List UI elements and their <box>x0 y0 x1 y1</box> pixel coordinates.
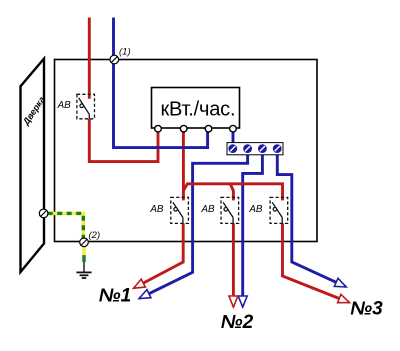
breaker AB1 <box>171 197 189 223</box>
svg-text:АВ: АВ <box>57 100 72 111</box>
door bolt <box>39 209 48 218</box>
svg-text:АВ: АВ <box>149 204 164 215</box>
wire: red bus to breakers 2,3 <box>183 184 282 201</box>
PE wire node 2 to ground <box>82 247 85 273</box>
svg-text:№3: №3 <box>350 298 383 319</box>
wire: red branch into breaker AB2 <box>230 184 233 201</box>
breaker AB3 <box>270 197 288 223</box>
svg-text:(2): (2) <box>89 230 101 241</box>
svg-text:(1): (1) <box>119 47 131 58</box>
wire: red phase incoming to main breaker <box>88 18 91 99</box>
node 2 (PE bolt) <box>80 238 89 247</box>
door panel <box>21 59 45 272</box>
breaker AB main (top-left) <box>77 94 95 119</box>
wire: red main breaker out to meter T1 <box>89 119 158 162</box>
kWh meter U1 <box>152 88 240 133</box>
wire: red AB1 out to arrow N1 <box>134 223 183 288</box>
wire: blue strip T4 to arrow N3 <box>277 153 345 287</box>
svg-text:АВ: АВ <box>248 204 263 215</box>
ground symbol <box>76 272 91 278</box>
wire: red meter T2 down into breaker AB1 <box>182 130 185 200</box>
PE wire door to node 2 (yellow-green) <box>48 213 84 238</box>
wire: red AB2 out to arrow N2 <box>232 223 235 306</box>
wire: red AB3 out to arrow N3 <box>283 223 350 302</box>
wire: blue meter T4 to strip T1 <box>232 130 235 144</box>
node 1 (phase entry bolt) <box>110 55 119 64</box>
svg-text:АВ: АВ <box>201 204 216 215</box>
wire: blue strip T2 to arrow N1 <box>140 153 248 298</box>
wire: blue strip T3 to arrow N2 <box>243 153 263 307</box>
enclosure box <box>55 60 318 242</box>
breaker AB2 <box>221 197 239 223</box>
svg-text:кВт./час.: кВт./час. <box>161 99 236 121</box>
svg-text:№1: №1 <box>99 286 131 307</box>
wire: blue neutral incoming to meter T3 <box>114 18 208 148</box>
terminal strip X1 <box>227 143 283 155</box>
svg-text:№2: №2 <box>221 312 254 333</box>
